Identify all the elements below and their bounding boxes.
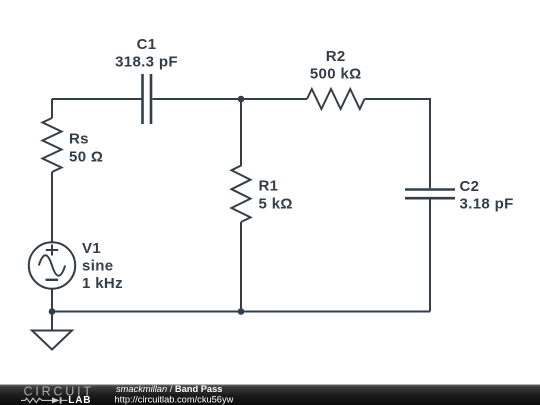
svg-text:5 kΩ: 5 kΩ (259, 195, 293, 212)
wire V1 to bottom rail (51, 289, 53, 312)
wire R1 to bottom rail (240, 222, 242, 312)
svg-text:LAB: LAB (68, 395, 91, 405)
svg-text:Rs: Rs (69, 131, 89, 148)
resistor R2 (307, 89, 365, 109)
svg-text:C1: C1 (137, 36, 157, 53)
svg-text:C2: C2 (460, 178, 480, 195)
junction dot bottom left (49, 308, 56, 315)
svg-text:V1: V1 (82, 240, 101, 257)
wire node A to R1 (240, 99, 242, 166)
voltage source V1 (29, 242, 75, 288)
resistor Rs (43, 118, 62, 172)
svg-text:R1: R1 (259, 178, 279, 195)
svg-text:3.18 pF: 3.18 pF (460, 196, 514, 213)
svg-text:500 kΩ: 500 kΩ (310, 66, 362, 83)
wire C1 to node A (152, 98, 241, 100)
wire Rs to V1 (51, 172, 53, 243)
wire left top (51, 99, 53, 118)
CircuitLab logo wire-resistor-diode glyph (21, 397, 68, 403)
svg-text:http://circuitlab.com/cku56yw: http://circuitlab.com/cku56yw (115, 394, 234, 404)
svg-text:1 kHz: 1 kHz (82, 275, 123, 292)
wire to ground (51, 312, 53, 331)
svg-text:318.3 pF: 318.3 pF (115, 53, 178, 70)
wire R2 to right corner (365, 99, 431, 188)
wire bottom rail (52, 311, 430, 313)
svg-text:R2: R2 (326, 48, 346, 65)
svg-text:50 Ω: 50 Ω (69, 148, 103, 165)
resistor R1 (232, 166, 251, 223)
capacitor C1 (143, 74, 152, 124)
wire node A to R2 (241, 98, 307, 100)
wire top rail left segment (52, 98, 142, 100)
footer bar (0, 385, 540, 405)
svg-text:sine: sine (82, 257, 113, 274)
junction dot bottom middle (238, 308, 245, 315)
svg-text:smackmillan / Band Pass: smackmillan / Band Pass (116, 384, 222, 394)
ground (32, 331, 72, 350)
wire C2 to bottom rail (429, 199, 431, 311)
node A junction dot (238, 96, 245, 103)
capacitor C2 (405, 190, 455, 199)
